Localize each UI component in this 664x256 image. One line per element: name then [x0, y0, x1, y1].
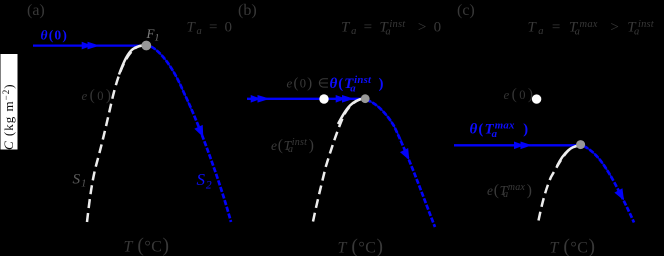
arrowhead pair on line (c) [514, 142, 525, 150]
arrowhead pair 1 on line (b) [251, 95, 261, 103]
blue dashed curve S2 (a) [151, 47, 192, 111]
svg-text:e(Tinsta): e(Tinsta) [271, 137, 315, 155]
node F1 gray dot [141, 41, 151, 51]
arrowhead on curve (b) [400, 148, 413, 162]
svg-text:θ(0): θ(0) [41, 28, 69, 43]
svg-text:(a): (a) [27, 2, 45, 19]
svg-text:Ta = 0: Ta = 0 [187, 20, 234, 38]
arrowhead on curve (a) [194, 125, 207, 139]
svg-text:e(0): e(0) [504, 86, 536, 103]
svg-text:e(0): e(0) [82, 87, 114, 104]
svg-text:(b): (b) [238, 2, 257, 19]
white curve solid tip (b) [338, 99, 362, 124]
svg-text:T (°C): T (°C) [124, 236, 170, 256]
wire: blue horizontal line theta(0) [33, 44, 144, 46]
node: gray dot (b) [361, 94, 370, 103]
svg-text:e(0) ∈: e(0) ∈ [287, 76, 331, 92]
wire: blue horizontal line (c) [454, 144, 577, 146]
arrowhead pair 2 on line (b) [336, 95, 346, 103]
y-axis label box [1, 54, 18, 150]
arrowhead on curve (c) [614, 188, 628, 203]
node: white dot (c) [532, 94, 541, 103]
arrowhead pair on line (a) [82, 42, 92, 50]
blue dashed curve (b) [366, 100, 402, 141]
svg-text:(c): (c) [457, 2, 475, 19]
svg-text:T (°C): T (°C) [550, 236, 596, 256]
white dashed curve (c) [539, 145, 581, 220]
white dashed curve (b) [313, 98, 363, 221]
white dashed curve S1 (a) [87, 45, 146, 222]
node: gray dot (c) [576, 140, 585, 149]
white curve solid tip (c) [557, 145, 580, 166]
white curve solid tip (a) [119, 45, 146, 74]
node: white open dot (b) [319, 94, 328, 103]
svg-text:T (°C): T (°C) [338, 236, 384, 256]
blue dashed curve (c) [584, 146, 613, 178]
wire: blue horizontal line (b) [247, 98, 362, 100]
